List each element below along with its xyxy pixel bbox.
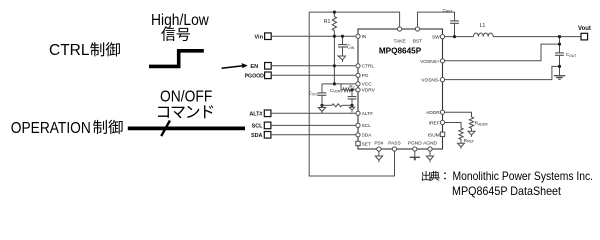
resistor R2	[341, 84, 356, 92]
pin IREF	[429, 120, 445, 126]
ground below CVDRV	[349, 105, 354, 112]
label ON/OFF command	[158, 88, 213, 118]
pin SW	[432, 35, 445, 41]
svg-text:SDA: SDA	[251, 133, 262, 139]
pin PG	[356, 73, 369, 79]
svg-text:BST: BST	[413, 39, 422, 45]
svg-text:CBST: CBST	[443, 8, 453, 14]
wire SDA	[271, 134, 356, 136]
label OPERATION control	[11, 120, 123, 137]
svg-text:ON/OFF: ON/OFF	[160, 88, 212, 105]
wire L1 to Vout	[493, 36, 581, 38]
svg-text:ISUM: ISUM	[428, 132, 440, 138]
ground at PS#	[375, 151, 382, 162]
svg-text:VDRV: VDRV	[362, 88, 376, 94]
pin PGND	[408, 141, 422, 151]
capacitor CIN	[338, 36, 355, 56]
capacitor CVCC	[309, 84, 327, 105]
pin VCC	[356, 82, 372, 88]
junction	[333, 11, 336, 14]
ground below COUT (earth bars)	[554, 76, 566, 80]
svg-text:VOSNS+: VOSNS+	[420, 59, 440, 65]
resistor R1	[324, 12, 337, 36]
pin VOSNS+	[420, 59, 445, 65]
pin AGND	[423, 141, 437, 151]
svg-text:PGND: PGND	[408, 141, 422, 147]
wire Vin to IN	[271, 35, 356, 37]
svg-text:RADDR: RADDR	[475, 121, 488, 127]
pin ISUM	[428, 132, 445, 138]
capacitor COUT	[555, 52, 576, 75]
svg-text:IREF: IREF	[429, 121, 440, 127]
svg-text:OPERATION: OPERATION	[11, 120, 91, 137]
pin VOSNS-	[421, 78, 444, 84]
svg-text:High/Low: High/Low	[151, 12, 210, 29]
terminal EN	[250, 63, 271, 71]
wire SCL	[271, 124, 356, 126]
ground below CIN	[338, 56, 345, 62]
thick command line	[128, 126, 245, 130]
wire SW to Vout	[443, 36, 474, 38]
pin VDRV	[356, 88, 376, 94]
junction	[453, 35, 456, 38]
svg-text:CTRL: CTRL	[362, 64, 375, 70]
svg-text:Vout: Vout	[578, 26, 591, 32]
wire PASS to TAKE daisy-chain loop	[309, 12, 399, 176]
junction	[350, 88, 353, 91]
pin PASS	[388, 141, 400, 151]
svg-text:PASS: PASS	[388, 141, 400, 147]
svg-text:IN: IN	[362, 34, 367, 40]
svg-text:PG: PG	[362, 73, 369, 79]
pin CTRL	[356, 64, 375, 70]
citation line 1	[422, 169, 593, 183]
svg-text:ALT#: ALT#	[362, 111, 373, 117]
ground below RADDR	[468, 131, 475, 137]
wire BST riser	[418, 12, 455, 27]
svg-text:AGND: AGND	[423, 141, 437, 147]
ground at PGND	[410, 151, 420, 160]
svg-text:PGOOD: PGOOD	[245, 73, 265, 79]
svg-text:ADDR: ADDR	[426, 110, 440, 116]
terminal PGOOD	[245, 72, 272, 79]
terminal SCL	[252, 122, 271, 130]
label CTRL control	[49, 42, 120, 59]
pin SDA	[356, 133, 372, 139]
slash on command line	[161, 121, 170, 137]
svg-text:SET: SET	[362, 141, 371, 147]
svg-text:MPQ8645P DataSheet: MPQ8645P DataSheet	[452, 184, 562, 198]
pin PS#	[374, 141, 383, 151]
ground below RREF	[458, 143, 465, 149]
pin SCL	[356, 123, 371, 129]
svg-text:ALT#: ALT#	[249, 112, 262, 118]
svg-text:COUT: COUT	[566, 52, 577, 58]
svg-text:TAKE: TAKE	[394, 39, 406, 45]
wire between cap grounds with bead	[322, 104, 352, 107]
svg-text:L1: L1	[480, 23, 486, 29]
wire output node vertical	[559, 37, 561, 53]
svg-text:CTRL: CTRL	[49, 42, 90, 59]
junction	[558, 65, 561, 68]
junction	[333, 64, 336, 67]
svg-text:CVCC: CVCC	[309, 91, 320, 97]
inductor L1	[474, 23, 494, 37]
terminal Vout	[578, 26, 591, 40]
arrow to EN	[222, 63, 248, 68]
wire R1 node down to VCC node	[333, 36, 335, 84]
capacitor CBST	[443, 8, 459, 37]
ground at AGND	[426, 151, 433, 162]
svg-text:EN: EN	[250, 64, 258, 70]
pin BST	[413, 27, 422, 45]
svg-text:VCC: VCC	[362, 82, 373, 88]
capacitor CVDRV	[330, 88, 356, 106]
junction	[333, 82, 336, 85]
wire ALT#	[271, 112, 356, 114]
op-amp U1 MPQ8645P chip body	[358, 29, 443, 149]
ground below CVCC	[318, 105, 325, 113]
svg-text:CIN: CIN	[347, 44, 355, 50]
svg-text:R1: R1	[324, 19, 331, 25]
svg-text:Vin: Vin	[254, 34, 263, 40]
wire EN to CTRL	[271, 65, 356, 67]
junction	[333, 35, 336, 38]
resistor RADDR	[443, 112, 489, 131]
label High/Low signal	[151, 12, 210, 41]
wire VOSNS+ sense	[443, 44, 560, 61]
svg-text:SDA: SDA	[362, 133, 373, 139]
pin SET	[356, 141, 371, 147]
junction	[341, 35, 344, 38]
svg-text:SW: SW	[432, 35, 440, 41]
svg-text:CVDRV: CVDRV	[330, 88, 343, 94]
terminal ALT#	[249, 110, 271, 118]
terminal Vin	[254, 33, 271, 40]
svg-text:MPQ8645P: MPQ8645P	[379, 46, 422, 55]
junction	[320, 104, 323, 107]
svg-text:Monolithic Power Systems Inc.: Monolithic Power Systems Inc.	[453, 169, 594, 183]
step waveform (High/Low)	[149, 51, 204, 67]
pin ADDR	[426, 110, 444, 116]
pin TAKE	[394, 27, 406, 45]
wire PGOOD to PG	[271, 74, 356, 76]
svg-text:SCL: SCL	[252, 124, 263, 130]
junction	[558, 35, 561, 38]
wire VOSNS- sense	[443, 66, 560, 79]
resistor RREF	[443, 123, 474, 144]
terminal SDA	[251, 132, 271, 140]
pin ALT#	[356, 111, 373, 117]
junction	[350, 104, 353, 107]
svg-text:SCL: SCL	[362, 123, 372, 129]
svg-text:PS#: PS#	[374, 141, 383, 147]
junction	[558, 43, 561, 46]
svg-text:VOSNS-: VOSNS-	[421, 78, 440, 84]
pin IN	[356, 34, 367, 40]
wire VCC pin to CVCC	[322, 83, 356, 85]
